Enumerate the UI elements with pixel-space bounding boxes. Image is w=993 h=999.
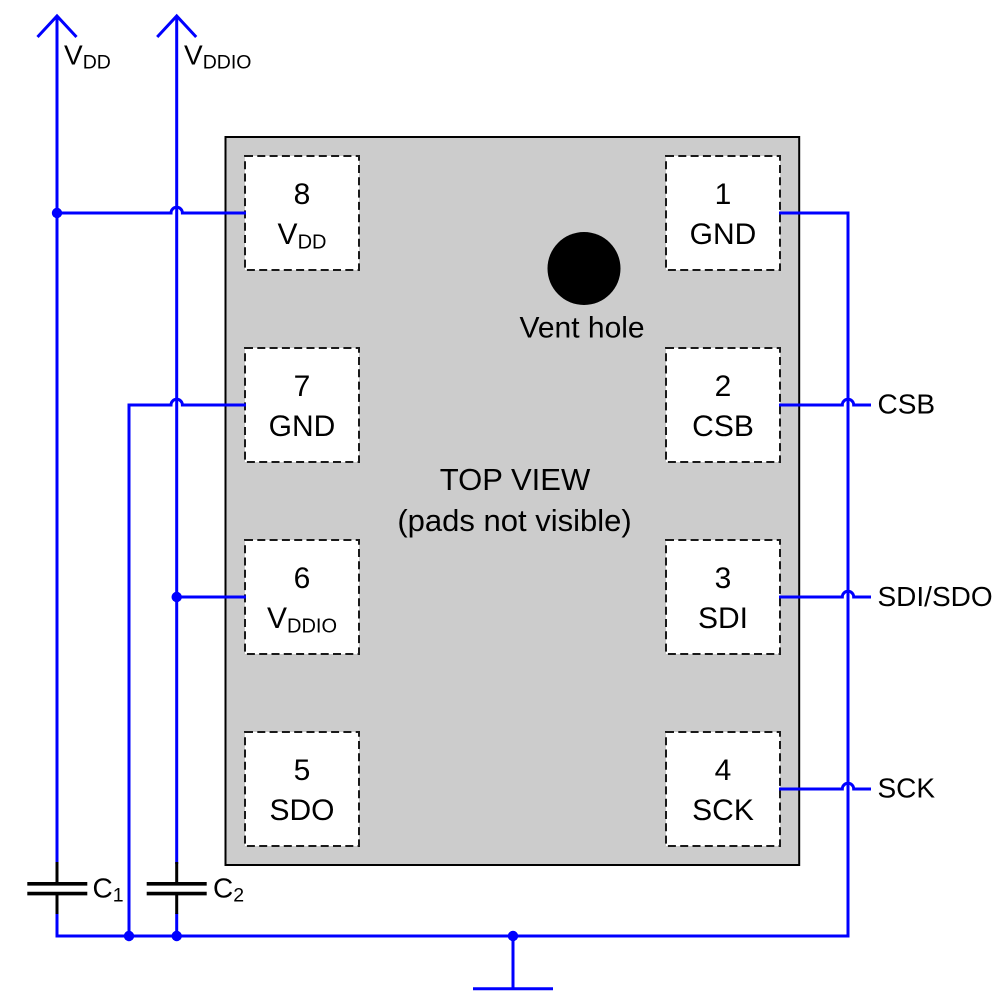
svg-text:7: 7: [294, 370, 311, 403]
svg-text:2: 2: [715, 370, 732, 403]
svg-text:SDI/SDO: SDI/SDO: [878, 581, 993, 612]
svg-text:3: 3: [715, 562, 732, 595]
svg-text:8: 8: [294, 178, 311, 211]
svg-text:SCK: SCK: [878, 772, 936, 803]
svg-text:4: 4: [715, 754, 732, 787]
svg-text:GND: GND: [269, 410, 336, 443]
svg-text:1: 1: [715, 178, 732, 211]
svg-text:5: 5: [294, 754, 311, 787]
svg-text:6: 6: [294, 562, 311, 595]
svg-text:SDO: SDO: [269, 794, 334, 827]
svg-text:GND: GND: [690, 218, 757, 251]
svg-text:SDI: SDI: [698, 602, 748, 635]
svg-text:TOP VIEW: TOP VIEW: [440, 462, 591, 497]
svg-text:CSB: CSB: [878, 389, 936, 420]
svg-text:(pads not visible): (pads not visible): [397, 503, 631, 538]
svg-text:Vent hole: Vent hole: [520, 312, 645, 345]
svg-text:SCK: SCK: [692, 794, 754, 827]
svg-text:CSB: CSB: [692, 410, 754, 443]
